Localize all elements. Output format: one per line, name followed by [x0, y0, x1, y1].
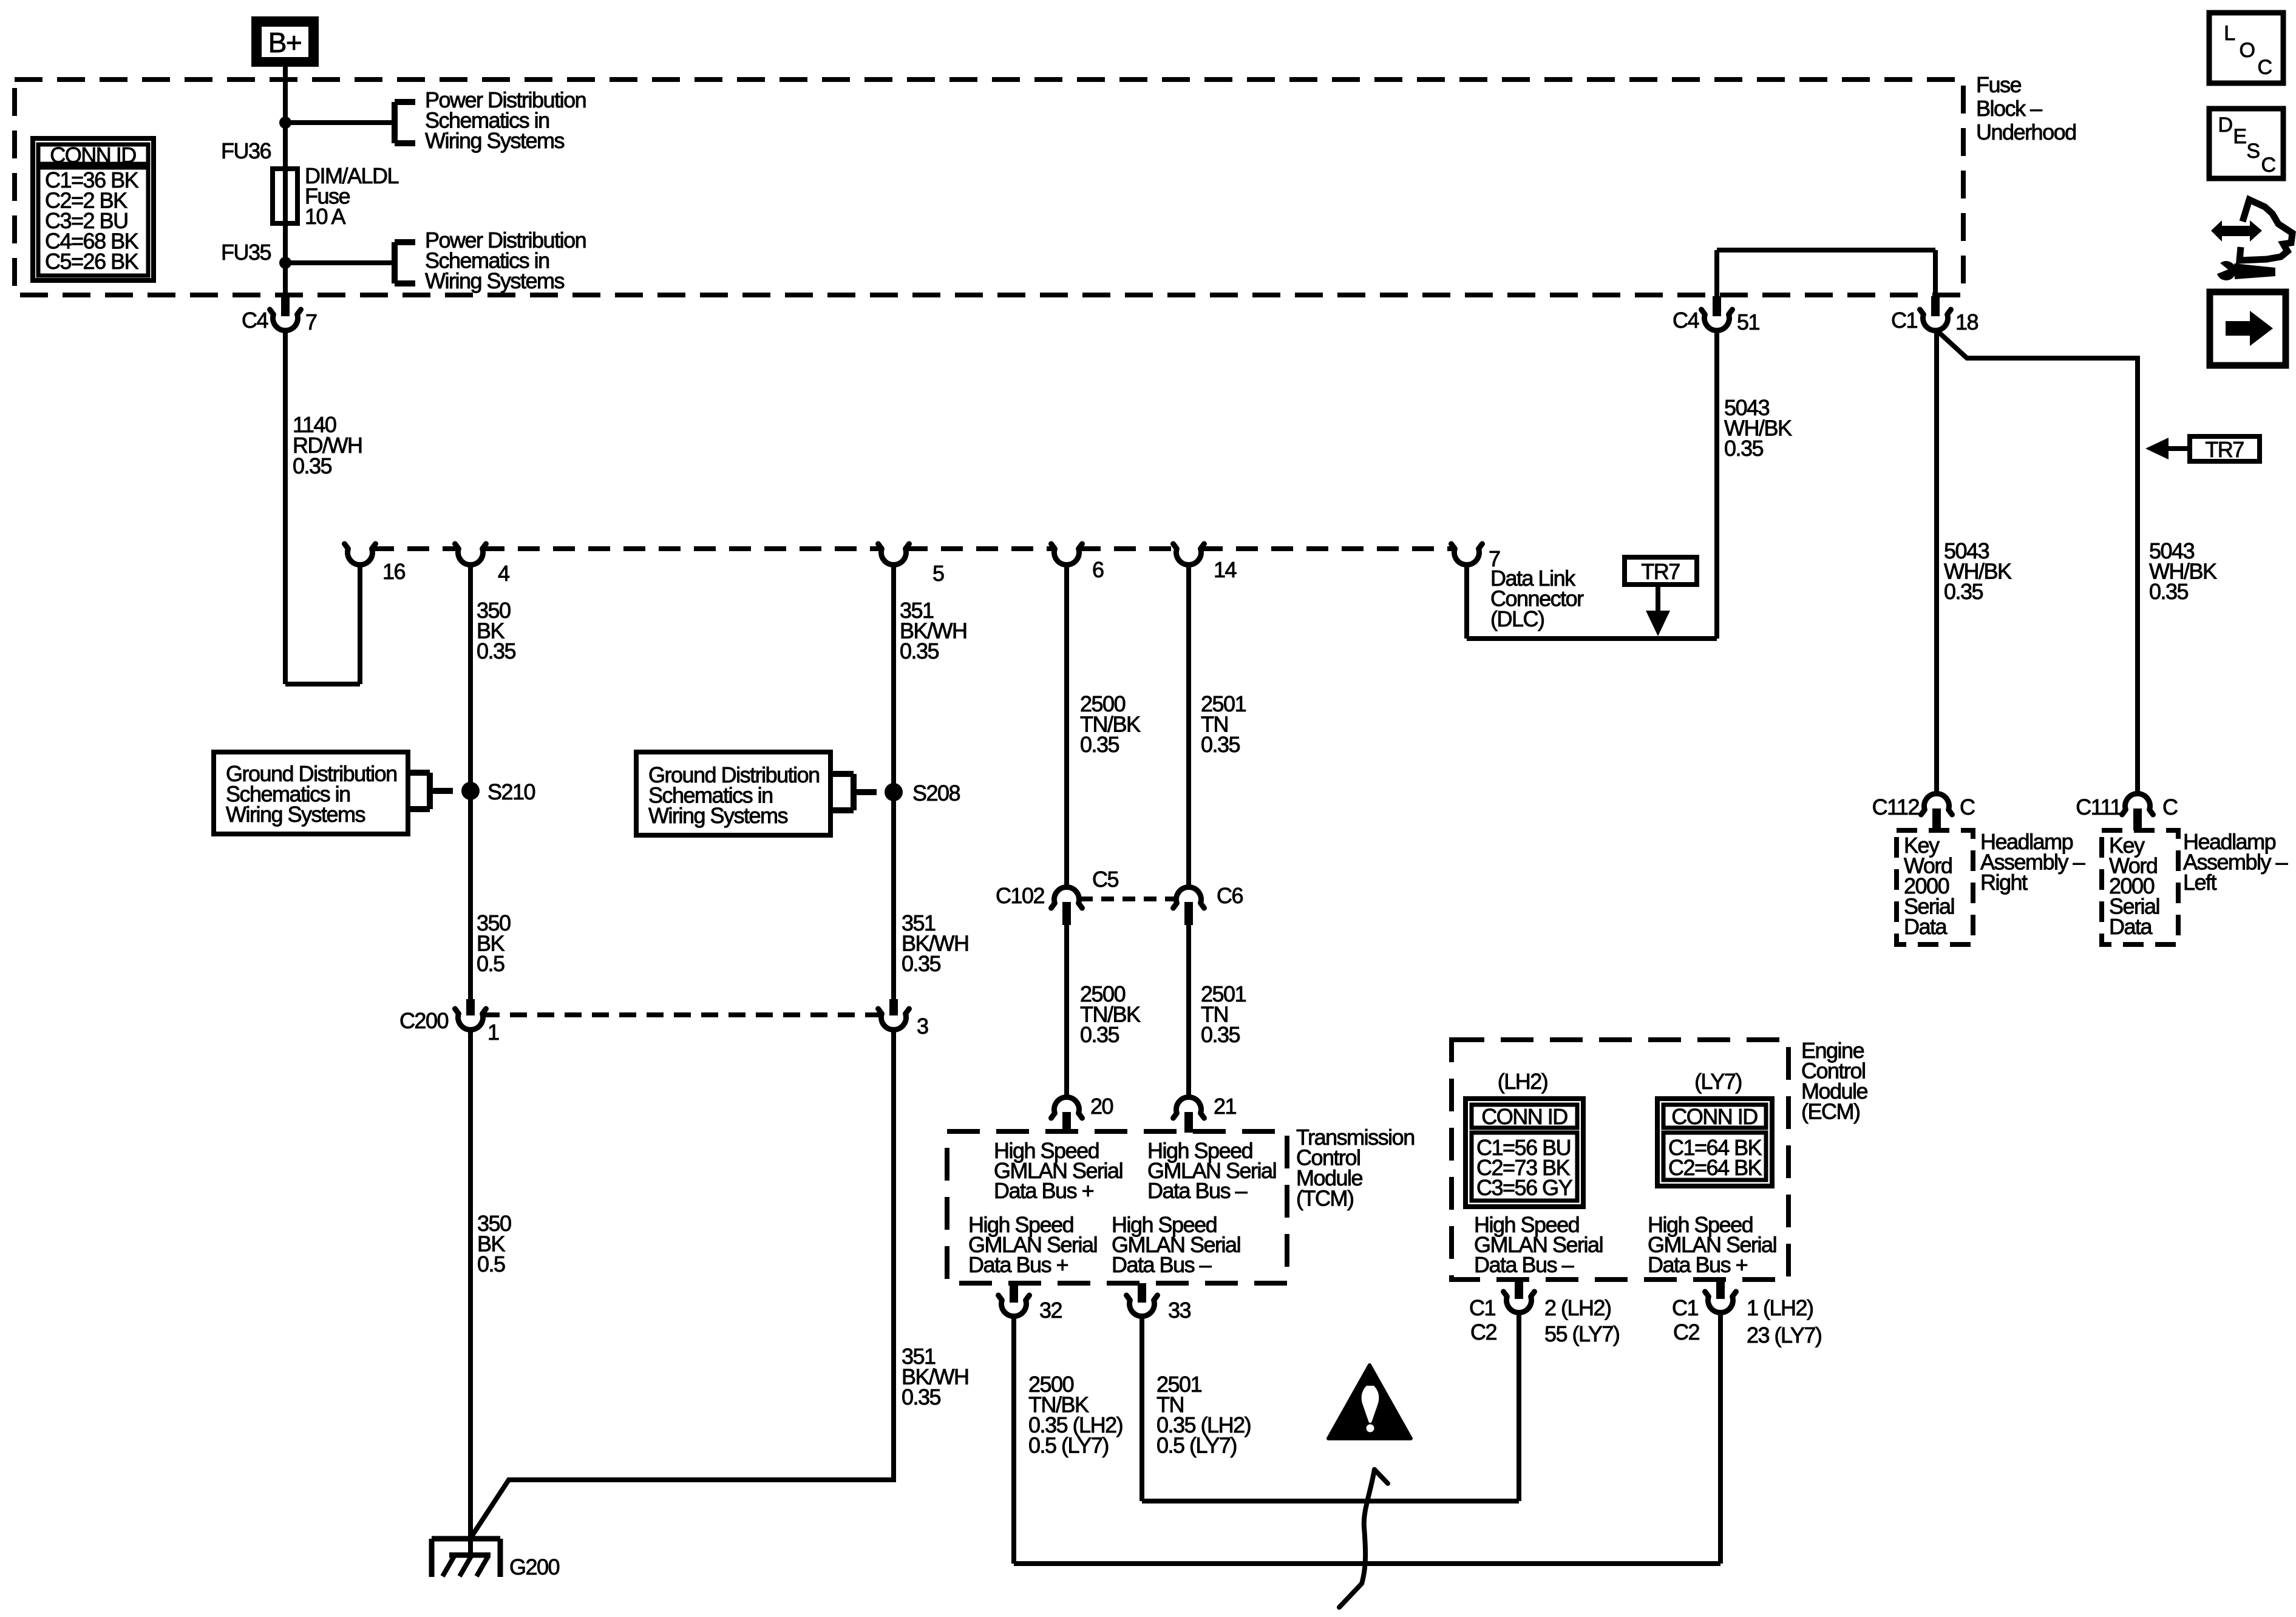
svg-text:FU36: FU36 — [221, 138, 271, 163]
svg-text:C1: C1 — [1672, 1295, 1698, 1320]
svg-text:CONN ID: CONN ID — [50, 143, 136, 168]
svg-text:FU35: FU35 — [221, 240, 271, 265]
svg-text:C3=56 GY: C3=56 GY — [1476, 1175, 1573, 1200]
svg-text:L: L — [2224, 22, 2235, 45]
svg-text:0.35: 0.35 — [902, 951, 941, 976]
svg-text:CONN ID: CONN ID — [1671, 1104, 1758, 1129]
svg-text:C1: C1 — [1891, 308, 1917, 333]
svg-text:1 (LH2): 1 (LH2) — [1747, 1295, 1813, 1320]
svg-text:1: 1 — [487, 1020, 499, 1045]
svg-text:55 (LY7): 55 (LY7) — [1544, 1321, 1619, 1346]
svg-text:Data Bus +: Data Bus + — [968, 1252, 1068, 1277]
svg-text:C112: C112 — [1872, 795, 1920, 819]
svg-text:18: 18 — [1955, 310, 1978, 334]
svg-text:C5: C5 — [1092, 867, 1118, 892]
svg-text:0.35: 0.35 — [1724, 436, 1764, 461]
svg-text:B+: B+ — [268, 27, 302, 58]
svg-text:Data: Data — [1904, 914, 1948, 939]
svg-text:5: 5 — [932, 561, 944, 586]
svg-text:33: 33 — [1168, 1298, 1191, 1323]
svg-text:(DLC): (DLC) — [1490, 606, 1544, 631]
svg-text:0.35: 0.35 — [1080, 1022, 1119, 1047]
svg-text:20: 20 — [1090, 1094, 1113, 1119]
svg-text:51: 51 — [1737, 310, 1760, 334]
svg-text:Fuse: Fuse — [1976, 72, 2022, 97]
svg-text:S210: S210 — [487, 779, 535, 804]
svg-text:C4: C4 — [242, 308, 268, 333]
svg-text:0.35: 0.35 — [477, 639, 516, 663]
svg-text:S: S — [2246, 140, 2260, 163]
svg-text:TR7: TR7 — [1641, 559, 1680, 584]
svg-text:Wiring Systems: Wiring Systems — [226, 802, 365, 827]
svg-text:Data Bus –: Data Bus – — [1147, 1178, 1248, 1203]
svg-text:Wiring Systems: Wiring Systems — [425, 268, 565, 293]
svg-text:21: 21 — [1214, 1094, 1237, 1119]
svg-text:0.35: 0.35 — [1201, 1022, 1240, 1047]
svg-text:2 (LH2): 2 (LH2) — [1544, 1295, 1611, 1320]
svg-text:23 (LY7): 23 (LY7) — [1747, 1323, 1821, 1347]
svg-text:16: 16 — [382, 559, 406, 584]
svg-text:O: O — [2240, 39, 2255, 62]
svg-text:C2: C2 — [1673, 1320, 1699, 1344]
svg-text:(LY7): (LY7) — [1694, 1069, 1742, 1094]
svg-text:6: 6 — [1092, 557, 1104, 582]
svg-text:C: C — [2162, 795, 2178, 819]
svg-text:(TCM): (TCM) — [1296, 1186, 1353, 1211]
svg-text:C6: C6 — [1217, 883, 1243, 908]
svg-text:C2=64 BK: C2=64 BK — [1668, 1155, 1762, 1180]
svg-text:14: 14 — [1214, 557, 1237, 582]
svg-text:C111: C111 — [2076, 795, 2121, 819]
svg-text:C2: C2 — [1470, 1320, 1496, 1344]
svg-text:0.5 (LY7): 0.5 (LY7) — [1028, 1433, 1109, 1458]
svg-text:0.5: 0.5 — [477, 1252, 505, 1276]
svg-text:(ECM): (ECM) — [1801, 1099, 1860, 1124]
svg-text:C5=26 BK: C5=26 BK — [45, 249, 139, 274]
svg-text:G200: G200 — [509, 1554, 560, 1579]
svg-text:32: 32 — [1039, 1298, 1062, 1323]
svg-text:3: 3 — [917, 1014, 928, 1039]
svg-text:C: C — [2257, 56, 2272, 79]
svg-text:0.5 (LY7): 0.5 (LY7) — [1156, 1433, 1237, 1458]
svg-text:Data Bus –: Data Bus – — [1112, 1252, 1212, 1277]
svg-text:0.35: 0.35 — [1201, 732, 1240, 757]
svg-text:CONN ID: CONN ID — [1481, 1104, 1567, 1129]
svg-text:0.35: 0.35 — [2149, 579, 2189, 604]
svg-text:C4: C4 — [1673, 308, 1699, 333]
svg-text:(LH2): (LH2) — [1498, 1069, 1548, 1094]
svg-text:0.5: 0.5 — [477, 951, 504, 976]
svg-text:C: C — [2261, 154, 2275, 177]
svg-text:10 A: 10 A — [305, 204, 346, 229]
svg-text:0.35: 0.35 — [1080, 732, 1119, 757]
svg-text:0.35: 0.35 — [293, 453, 332, 478]
svg-text:C102: C102 — [996, 883, 1045, 908]
svg-text:Block –: Block – — [1976, 96, 2042, 121]
svg-text:4: 4 — [498, 561, 509, 586]
svg-text:0.35: 0.35 — [1944, 579, 1983, 604]
svg-text:Data Bus –: Data Bus – — [1474, 1252, 1574, 1277]
svg-text:Data: Data — [2109, 914, 2153, 939]
svg-text:Wiring Systems: Wiring Systems — [648, 803, 788, 828]
svg-text:S208: S208 — [912, 781, 960, 805]
svg-text:Data Bus +: Data Bus + — [1648, 1252, 1748, 1277]
svg-text:Wiring Systems: Wiring Systems — [425, 128, 565, 153]
svg-text:TR7: TR7 — [2205, 437, 2244, 462]
svg-text:D: D — [2218, 114, 2232, 137]
svg-text:Data Bus +: Data Bus + — [994, 1178, 1094, 1203]
svg-text:0.35: 0.35 — [902, 1385, 941, 1409]
svg-text:C1: C1 — [1469, 1295, 1495, 1320]
svg-text:0.35: 0.35 — [900, 639, 939, 663]
svg-text:C200: C200 — [399, 1008, 449, 1033]
svg-text:Right: Right — [1980, 870, 2028, 895]
svg-text:Underhood: Underhood — [1976, 120, 2076, 144]
svg-text:C: C — [1960, 795, 1975, 819]
svg-text:Left: Left — [2183, 870, 2217, 895]
svg-text:E: E — [2233, 125, 2246, 148]
svg-text:7: 7 — [305, 310, 317, 334]
